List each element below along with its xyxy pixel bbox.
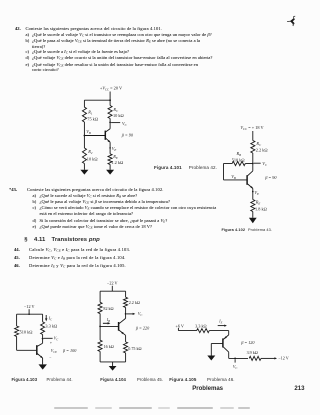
svg-text:β = 90: β = 90 [121, 133, 134, 138]
node VE fig4.101 [109, 147, 111, 149]
label RB value fig4.103 [20, 329, 33, 334]
svg-text:−12 V: −12 V [278, 356, 288, 361]
label RC value fig4.105 [247, 350, 258, 355]
wire supply tick fig4.105 [177, 328, 179, 331]
net -12V supply label fig4.103 [24, 304, 35, 309]
node top junction fig4.101 [109, 99, 111, 101]
svg-text:VC: VC [54, 336, 58, 342]
wire emitter rail left fig4.105 [178, 330, 196, 332]
svg-text:VB: VB [231, 174, 236, 180]
resistor RC 2.2k fig4.104 [124, 297, 128, 307]
svg-text:VCC = + 18 V: VCC = + 18 V [240, 125, 264, 131]
wire RC to VC fig4.103 [42, 335, 44, 339]
svg-text:1.2 kΩ: 1.2 kΩ [111, 160, 123, 165]
ground fig4.104 [109, 366, 117, 371]
wire VCC tick down fig4.101 [109, 92, 111, 101]
wire R2 to ground fig4.101 [83, 164, 85, 170]
label RC value 10 k fig4.101 [113, 113, 124, 118]
label RE value fig4.105 [195, 323, 206, 328]
wire VC stub fig4.102 [254, 162, 261, 164]
transistor Q2 base bar fig4.102 [246, 175, 248, 185]
svg-text:75 kΩ: 75 kΩ [87, 117, 98, 122]
label VCE plus fig4.103 [50, 341, 52, 345]
wire emitter down fig4.104 [125, 335, 127, 342]
wire base fig4.101 [84, 135, 105, 137]
transistor Q1 base bar fig4.101 [104, 131, 106, 140]
svg-text:3.3 kΩ: 3.3 kΩ [195, 323, 206, 328]
wire collector down fig4.105 [228, 352, 230, 358]
wire left corner to base fig4.103 [17, 337, 37, 351]
label RE fig4.101 [112, 154, 118, 160]
label beta 120 fig4.105 [240, 340, 255, 345]
label VB fig4.102 [231, 174, 236, 180]
wire bottom rail fig4.105 [229, 357, 248, 359]
wire top horizontal fig4.101 [84, 99, 110, 101]
wire collector into transistor fig4.102 [248, 164, 253, 176]
node VC fig4.103 [42, 338, 44, 340]
label VC fig4.102 [262, 161, 268, 167]
label -12V fig4.105 [278, 356, 288, 361]
label VCE minus fig4.103 [49, 355, 51, 359]
resistor RC 3.9k fig4.105 [249, 356, 261, 360]
resistor RC 3.3k fig4.103 [41, 322, 45, 335]
svg-text:RB: RB [236, 151, 242, 157]
svg-text:R2: R2 [87, 149, 93, 155]
wire supply tick fig4.104 [111, 286, 113, 291]
svg-text:VC: VC [262, 161, 268, 167]
wire base corner down fig4.105 [210, 344, 212, 356]
label beta 220 fig4.104 [135, 326, 150, 331]
net +6V supply label fig4.105 [176, 323, 184, 328]
wire top rail fig4.104 [100, 290, 126, 292]
svg-text:+VCC = 20 V: +VCC = 20 V [100, 85, 123, 91]
transistor Q4 base bar fig4.104 [118, 322, 120, 331]
label VC fig4.101 [122, 121, 128, 127]
resistor RC lead fig4.101 [109, 100, 111, 105]
wire collector fig4.103 [37, 339, 42, 347]
svg-text:VE: VE [112, 146, 117, 152]
transistor Q5 base bar fig4.105 [222, 338, 224, 347]
svg-text:VE: VE [254, 190, 259, 196]
wire collector fig4.104 [119, 314, 126, 324]
wire RE to ground fig4.101 [109, 165, 111, 170]
label IC fig4.103 [48, 315, 52, 321]
label VC fig4.104 [138, 311, 142, 317]
resistor R2 10k fig4.101 [82, 148, 86, 164]
svg-text:IE: IE [218, 319, 222, 324]
wire right upper fig4.104 [125, 291, 127, 297]
svg-text:82 kΩ: 82 kΩ [103, 306, 113, 311]
label RB fig4.102 [236, 151, 242, 157]
ground fig4.103 [39, 364, 47, 369]
label RC value fig4.102 [256, 148, 268, 153]
label RE value fig4.101 [111, 160, 123, 165]
resistor RB 510k fig4.103 [15, 326, 19, 337]
wire corner down fig4.105 [228, 331, 230, 335]
wire left branch upper lead fig4.101 [83, 100, 85, 107]
label RE value fig4.104 [128, 346, 141, 351]
wire left branch upper fig4.103 [16, 314, 18, 326]
wire RC to VC node fig4.101 [109, 119, 111, 123]
svg-text:10 kΩ: 10 kΩ [113, 113, 124, 118]
wire bottom rail fig4.104 [100, 361, 126, 363]
wire RC to node fig4.102 [252, 153, 254, 164]
label R1 value 82k fig4.104 [103, 306, 113, 311]
label VB fig4.101 [86, 129, 91, 135]
wire base fig4.105 [211, 343, 223, 345]
svg-text:β = 120: β = 120 [240, 340, 255, 345]
net -22V supply label fig4.104 [107, 281, 118, 286]
wire emitter rail right fig4.105 [209, 330, 228, 332]
node VC fig4.104 [125, 313, 127, 315]
ground fig4.102 [249, 218, 257, 223]
net VCC supply label fig4.102 [240, 125, 264, 131]
resistor RC 2.2k fig4.102 [251, 141, 255, 154]
wire ground stem fig4.104 [112, 362, 114, 366]
transistor Q3 base bar fig4.103 [36, 345, 38, 355]
svg-text:VC: VC [233, 364, 237, 370]
svg-text:2.2 kΩ: 2.2 kΩ [129, 300, 140, 305]
resistor R1 82k fig4.104 [98, 302, 102, 313]
svg-text:510 kΩ: 510 kΩ [232, 157, 245, 162]
resistor RE 3.3k fig4.105 [197, 329, 210, 333]
svg-text:16 kΩ: 16 kΩ [104, 344, 114, 349]
label beta 90 fig4.101 [121, 133, 134, 138]
svg-text:RE: RE [255, 200, 261, 206]
current arrow IB fig4.104 [103, 322, 111, 324]
transistor Q4 emitter pnp fig4.104 [119, 330, 126, 335]
transistor Q5 emitter pnp fig4.105 [223, 335, 228, 340]
resistor RE 1.2k fig4.101 [108, 154, 112, 165]
wire R1 to VB fig4.101 [83, 122, 85, 148]
svg-text:2.2 kΩ: 2.2 kΩ [256, 148, 268, 153]
wire feedback corner fig4.102 [224, 164, 247, 180]
svg-text:VB: VB [86, 129, 91, 135]
wire RB left lead fig4.102 [224, 163, 233, 165]
svg-text:+: + [50, 341, 52, 345]
label R1 fig4.101 [87, 109, 93, 115]
label RC fig4.101 [112, 107, 119, 113]
ground right fig4.101 [106, 170, 114, 175]
transistor Q5 collector fig4.105 [223, 347, 228, 352]
label VC fig4.103 [54, 336, 58, 342]
wire emitter to VE fig4.101 [109, 142, 111, 154]
svg-text:3.9 kΩ: 3.9 kΩ [247, 350, 258, 355]
wire base fig4.104 [100, 325, 119, 327]
wire left middle fig4.104 [99, 314, 101, 341]
transistor Q3 emitter fig4.103 [37, 354, 43, 359]
wire to supply fig4.105 [261, 357, 277, 359]
node VC fig4.105 [234, 358, 236, 360]
wire VC tick fig4.105 [234, 359, 236, 362]
node VE fig4.102 [252, 191, 254, 193]
label beta 100 fig4.103 [62, 348, 77, 353]
svg-text:−12 V: −12 V [24, 304, 35, 309]
label R2 value 16k fig4.104 [104, 344, 114, 349]
wire VCC lead fig4.102 [252, 131, 254, 141]
transistor Q2 emitter fig4.102 [248, 184, 254, 189]
svg-text:VC: VC [122, 121, 128, 127]
resistor RC 10k fig4.101 [108, 106, 112, 119]
ground left fig4.101 [80, 170, 88, 175]
svg-text:R1: R1 [87, 109, 93, 115]
node collector junction fig4.102 [252, 163, 254, 165]
label VE fig4.102 [254, 190, 259, 196]
label RC value fig4.103 [45, 323, 57, 328]
resistor R1 75k fig4.101 [82, 107, 86, 122]
label RB value fig4.102 [232, 157, 245, 162]
label RC fig4.102 [255, 141, 262, 147]
svg-text:RC: RC [255, 141, 262, 147]
svg-text:510 kΩ: 510 kΩ [20, 329, 33, 334]
svg-text:1.8 kΩ: 1.8 kΩ [255, 206, 267, 211]
wire RB right lead fig4.102 [245, 163, 253, 165]
label R2 value 10 k fig4.101 [87, 157, 98, 162]
label IE fig4.105 [218, 319, 222, 324]
resistor RE 1.8k fig4.102 [251, 200, 255, 212]
wire VC arrow fig4.104 [127, 313, 136, 315]
label RE value fig4.102 [255, 206, 267, 211]
label RC value fig4.104 [129, 300, 140, 305]
wire supply tick fig4.103 [28, 309, 30, 314]
label R1 value 75 k fig4.101 [87, 117, 98, 122]
ground fig4.105 [207, 356, 215, 361]
net +VCC supply label figure 4.101 [100, 85, 123, 91]
svg-text:+6 V: +6 V [176, 323, 184, 328]
resistor RE 0.75k fig4.104 [124, 342, 128, 353]
label RE fig4.102 [255, 200, 261, 206]
wire right branch upper fig4.103 [42, 314, 44, 322]
svg-text:VC: VC [138, 311, 142, 317]
svg-text:−22 V: −22 V [107, 281, 118, 286]
node VC fig4.101 [109, 122, 111, 124]
svg-text:0.75 kΩ: 0.75 kΩ [128, 346, 141, 351]
label VCE fig4.103 [51, 348, 57, 354]
svg-text:10 kΩ: 10 kΩ [87, 157, 98, 162]
wire emitter to VE fig4.102 [252, 188, 254, 199]
svg-text:−: − [49, 355, 51, 359]
resistor RB 510k fig4.102 [232, 161, 245, 165]
wire emitter to ground fig4.103 [42, 358, 44, 364]
wire VC stub fig4.103 [44, 337, 53, 339]
node supply junction fig4.103 [28, 313, 30, 315]
svg-text:IB: IB [106, 318, 110, 323]
wire collector fig4.101 [106, 122, 110, 131]
wire left lower fig4.104 [99, 351, 101, 362]
label VC fig4.105 [233, 364, 237, 370]
label R2 fig4.101 [87, 149, 93, 155]
wire RE to ground fig4.102 [252, 212, 254, 218]
node base junction fig4.104 [99, 326, 101, 328]
wire RC to VC fig4.104 [125, 308, 127, 314]
label VE fig4.101 [112, 146, 117, 152]
current arrow IC fig4.103 [45, 315, 47, 321]
label IB fig4.104 [106, 318, 110, 323]
page mark top right corner [287, 16, 295, 25]
label beta 90 fig4.102 [264, 175, 277, 180]
wire VC stub fig4.101 [111, 122, 120, 124]
svg-text:β = 100: β = 100 [62, 348, 77, 353]
svg-text:β = 220: β = 220 [135, 326, 150, 331]
svg-text:β = 90: β = 90 [264, 175, 277, 180]
node VB fig4.101 [84, 135, 86, 137]
svg-text:RC: RC [112, 107, 119, 113]
wire left upper fig4.104 [99, 291, 101, 302]
wire top rail fig4.103 [17, 313, 43, 315]
transistor Q1 emitter fig4.101 [106, 138, 111, 142]
resistor R2 16k fig4.104 [98, 340, 102, 351]
svg-text:VCE: VCE [51, 348, 57, 354]
svg-text:3.3 kΩ: 3.3 kΩ [45, 323, 57, 328]
svg-text:IC: IC [48, 315, 52, 321]
current arrow IE fig4.105 [218, 325, 227, 327]
wire RE to bottom fig4.104 [125, 353, 127, 362]
